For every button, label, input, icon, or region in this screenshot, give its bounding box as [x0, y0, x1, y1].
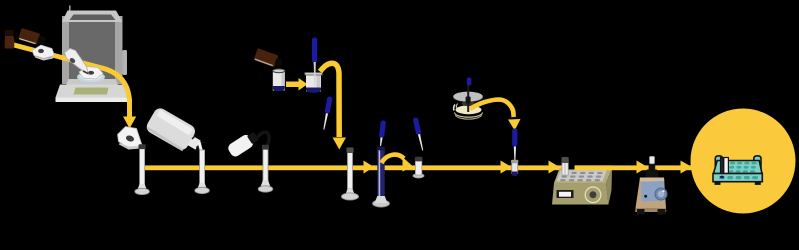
tube T1 on stand [135, 144, 150, 194]
rack navy dot [720, 176, 724, 179]
yellow circle [691, 109, 796, 214]
spatula pouring inside balance [65, 49, 89, 75]
branch arrow vial to beaker [286, 82, 299, 88]
balance left column [62, 16, 69, 84]
tube rack [713, 156, 762, 185]
arrowhead on main line before T5 [364, 161, 375, 174]
tube T7 small [511, 160, 518, 176]
jug splash [192, 135, 205, 151]
line over block edge [575, 165, 613, 170]
pipette P2 [321, 96, 332, 130]
pipette over T6 [413, 117, 426, 151]
tube T6 small [413, 157, 424, 178]
wash bottle spout [258, 132, 270, 147]
arrowhead before heat block [549, 161, 560, 174]
reagent bottle standing [5, 30, 14, 36]
pipette over T7 [512, 129, 517, 147]
curved arrow beaker down [320, 63, 339, 137]
balance top frame [62, 11, 123, 23]
tube T5 navy [373, 147, 390, 208]
weigh boat receiving [118, 127, 143, 149]
wash bottle pouring [226, 130, 260, 159]
heat block insert plate [557, 170, 607, 181]
pipette over beaker [312, 38, 317, 63]
rack feet [715, 182, 721, 185]
vial V1 [273, 69, 285, 91]
main flow line [145, 165, 692, 170]
tube T3 on stand [258, 145, 273, 192]
rack dark tube [720, 158, 723, 175]
filter dish station [453, 78, 483, 120]
rack deck [714, 161, 763, 174]
balance interior [69, 19, 116, 81]
balance side rail [123, 50, 128, 75]
arrow from bottle through balance down to weigh boat [12, 45, 130, 118]
tube T4 on stand [341, 148, 358, 200]
spatula outside balance [32, 45, 55, 59]
gap in line at block tube [568, 165, 575, 170]
balance pan [77, 72, 105, 83]
weigh boat on pan [79, 67, 103, 80]
jug pouring [144, 106, 205, 157]
arrowhead before circle [681, 161, 693, 174]
tube T2 on stand [195, 150, 210, 194]
jug stream [198, 142, 204, 153]
curved arrow dish to pipette [470, 100, 514, 118]
vortex mixer [635, 156, 667, 214]
heat block knob [585, 187, 601, 203]
amber bottle pouring into vial [254, 48, 285, 69]
rack right post [754, 156, 761, 176]
heat block [552, 169, 612, 205]
beaker [305, 73, 323, 93]
balance top tick [69, 6, 71, 11]
pipette over T5 [378, 120, 386, 146]
balance floor [66, 79, 118, 85]
rack left post [715, 156, 722, 176]
balance right column [115, 16, 123, 84]
curved arrow T5 to T6 [382, 155, 405, 163]
balance base [56, 85, 130, 98]
reagent bottle tilted pouring [18, 28, 47, 47]
rack front face [713, 174, 762, 182]
balance LCD [74, 88, 109, 95]
rack white tube [724, 158, 729, 175]
arrowhead before vortexer [637, 161, 648, 174]
arrowhead on main line before T7 [501, 161, 512, 174]
heat block display [557, 190, 574, 198]
tube in heat block [562, 157, 569, 175]
